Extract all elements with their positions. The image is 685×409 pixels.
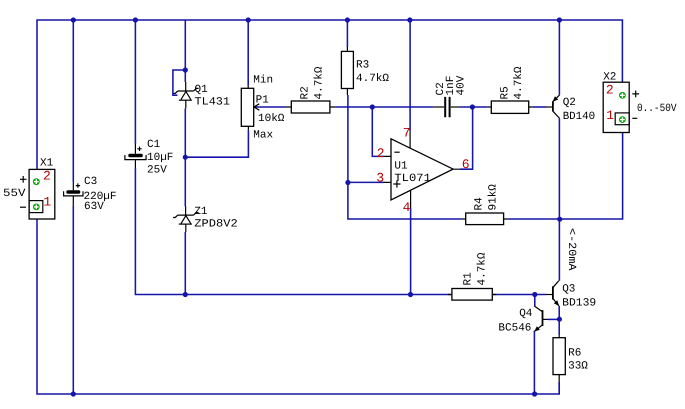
- svg-text:Q2: Q2: [563, 97, 576, 109]
- capacitor C3: [64, 182, 83, 205]
- connector X1 body: [29, 169, 55, 219]
- connector X2 pin 2 (green): [619, 92, 626, 99]
- wire Q2 collector down through output node to Q3 collector: [558, 118, 560, 281]
- transistor Q2 BD140 (PNP): [546, 95, 560, 119]
- wire U1 pin2 branch from node on H3: [372, 107, 384, 156]
- X1 plus sign: [20, 176, 27, 183]
- wire H5 from C1/Z1 node to P1 bottom (Max): [185, 130, 248, 157]
- junction top rail at P1: [246, 17, 251, 22]
- junction ground rail at C3: [71, 391, 76, 396]
- svg-text:Z1: Z1: [194, 206, 208, 218]
- svg-text:25V: 25V: [147, 165, 167, 177]
- svg-text:6: 6: [462, 157, 470, 172]
- potentiometer P1: [241, 86, 259, 130]
- svg-text:Max: Max: [253, 130, 273, 142]
- svg-text:TL071: TL071: [394, 173, 431, 185]
- wire R2 to C2: [336, 106, 434, 108]
- wire U1 pin7 up to rail: [409, 20, 411, 132]
- wire C1 top branch: [134, 20, 136, 144]
- resistor R4: [462, 213, 508, 225]
- wire Q4 collector up to H1: [534, 295, 536, 307]
- svg-text:1: 1: [606, 108, 614, 123]
- resistor R6: [553, 335, 565, 382]
- junction H1 at Q4 collector: [532, 292, 537, 297]
- svg-text:3: 3: [376, 171, 384, 186]
- wire R3 top stub to rail: [346, 20, 348, 47]
- svg-text:TL431: TL431: [195, 97, 231, 109]
- junction pin3 tee: [345, 180, 350, 185]
- connector X1 pin 1 (green): [33, 204, 40, 211]
- svg-text:R2: R2: [300, 86, 312, 99]
- capacitor C1: [125, 144, 146, 168]
- wire Q2 emitter up to rail: [558, 20, 560, 95]
- svg-text:R1: R1: [463, 272, 475, 286]
- svg-text:P1: P1: [256, 95, 270, 107]
- junction top rail at Q2: [557, 17, 562, 22]
- resistor R1: [448, 289, 496, 301]
- junction Q1 ref loop: [183, 67, 188, 72]
- svg-text:4.7kΩ: 4.7kΩ: [477, 252, 489, 285]
- junction H3 at U1 pin2 branch: [370, 104, 375, 109]
- connector X2 body: [603, 82, 629, 132]
- op-amp U1 TL071: [384, 132, 460, 208]
- svg-text:Q3: Q3: [562, 283, 575, 295]
- resistor R3: [341, 47, 353, 95]
- svg-text:0..-50V: 0..-50V: [637, 103, 677, 115]
- svg-text:55V: 55V: [3, 188, 26, 200]
- X2 minus sign: [632, 117, 637, 119]
- wire R5 to Q2 base: [533, 106, 546, 108]
- capacitor C2: [434, 97, 460, 117]
- transistor Q3 BD139 (NPN): [546, 281, 559, 306]
- svg-text:C1: C1: [147, 139, 161, 151]
- wire U1 pin4 down to H1: [410, 208, 412, 295]
- junction top rail at C3: [71, 17, 76, 22]
- C1 plus sign: [137, 147, 141, 151]
- svg-text:U1: U1: [394, 161, 408, 173]
- resistor R5: [487, 101, 532, 113]
- svg-text:ZPD8V2: ZPD8V2: [194, 219, 238, 231]
- junction C1/Z1 node at H5: [183, 155, 188, 160]
- svg-text:4.7kΩ: 4.7kΩ: [513, 66, 525, 99]
- X2 plus sign: [632, 91, 639, 98]
- junction top rail at C1: [133, 17, 138, 22]
- svg-text:BC546: BC546: [498, 322, 531, 334]
- wire P1 top to rail: [247, 20, 249, 86]
- wire Q1 upper vertical: [184, 20, 186, 82]
- svg-text:BD140: BD140: [563, 111, 596, 123]
- svg-text:63V: 63V: [84, 201, 104, 213]
- wire Z1 bottom vertical to H1: [184, 232, 186, 295]
- junction top rail at U1 pin7: [407, 17, 412, 22]
- junction H1 at U1 pin4: [408, 292, 413, 297]
- junction ground rail at Q4 emitter: [532, 391, 537, 396]
- svg-text:40V: 40V: [456, 75, 468, 95]
- wire bottom ground rail from X1 pin1 down, across to R6 bottom: [37, 207, 559, 394]
- wire Q4 emitter down to ground rail: [533, 331, 535, 394]
- wire C2 to R5: [459, 106, 487, 108]
- svg-text:Q4: Q4: [519, 308, 533, 320]
- resistor R2: [285, 101, 336, 113]
- wire C3 top branch: [72, 20, 74, 182]
- wire C3 bottom branch: [72, 205, 74, 394]
- wire C1 bottom, corner to horizontal rail H1 to Q3 base: [135, 168, 546, 295]
- wire Q3 emitter to R6 node: [558, 306, 560, 336]
- svg-text:<-20mA: <-20mA: [565, 228, 577, 271]
- svg-text:2: 2: [606, 82, 614, 97]
- svg-text:33Ω: 33Ω: [568, 361, 588, 373]
- svg-text:R4: R4: [474, 197, 486, 211]
- wire U1 pin6 output up to C2/R5 node: [460, 107, 473, 169]
- wire R6 bottom lead to ground rail (blue part): [558, 382, 560, 394]
- C3 plus sign: [76, 183, 80, 187]
- junction output node at H2: [557, 217, 562, 222]
- junction Q3 emitter / Q4 base / R6: [557, 317, 562, 322]
- junction H3 at C2/R5/U1 pin6: [470, 104, 475, 109]
- wire Q1 reference loop: [173, 70, 185, 95]
- svg-text:Min: Min: [253, 75, 273, 87]
- zener diode Z1: [173, 206, 199, 232]
- wire R4 right to output node, right and up to X2 pin1: [508, 120, 623, 219]
- svg-text:2: 2: [377, 146, 385, 161]
- svg-text:R3: R3: [356, 60, 369, 72]
- wire Q1-Z1 middle vertical: [184, 108, 186, 206]
- svg-text:4: 4: [403, 200, 411, 215]
- svg-text:1: 1: [43, 195, 51, 210]
- svg-text:7: 7: [403, 125, 411, 140]
- wire U1 pin3 tee: [348, 181, 384, 183]
- junction H1 at Z1: [183, 292, 188, 297]
- wire Q4 base to R6 node: [548, 318, 559, 320]
- wire P1 wiper to R2: [256, 106, 285, 108]
- wire R3 bottom through H3 down to H2, right to R4: [348, 95, 462, 219]
- svg-text:C3: C3: [84, 176, 97, 188]
- svg-text:2: 2: [43, 168, 51, 183]
- svg-text:10µF: 10µF: [147, 152, 173, 164]
- connector X1 pin 2 (green): [33, 178, 40, 185]
- junction top rail at R3: [345, 17, 350, 22]
- shunt regulator Q1 TL431: [173, 82, 199, 108]
- svg-text:BD139: BD139: [562, 298, 596, 310]
- svg-text:4.7kΩ: 4.7kΩ: [314, 66, 326, 99]
- connector X2 pin 1 (green): [619, 116, 626, 123]
- svg-text:R6: R6: [568, 348, 581, 360]
- transistor Q4 BC546 (NPN, mirrored): [534, 306, 548, 331]
- wire top rail from X1 pin2 up, across, down to X2 pin2: [37, 20, 622, 182]
- svg-text:R5: R5: [500, 86, 512, 99]
- svg-text:10kΩ: 10kΩ: [258, 113, 285, 125]
- svg-text:4.7kΩ: 4.7kΩ: [356, 73, 389, 85]
- X1 minus sign: [20, 206, 26, 208]
- svg-text:91kΩ: 91kΩ: [488, 184, 500, 211]
- svg-text:Q1: Q1: [195, 84, 209, 96]
